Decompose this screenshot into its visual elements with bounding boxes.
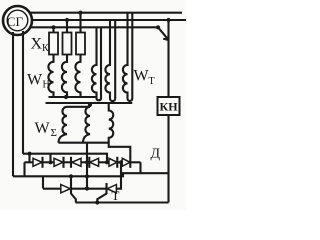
svg-text:X: X [31,36,43,53]
svg-text:Д: Д [151,147,161,162]
svg-text:W: W [27,72,43,89]
svg-text:Т: Т [149,76,155,87]
svg-text:W: W [35,120,51,137]
svg-text:Т: Т [112,188,120,203]
svg-text:СГ: СГ [7,14,24,29]
svg-text:К: К [42,43,49,54]
svg-text:Н: Н [43,80,50,91]
svg-text:Σ: Σ [51,127,57,139]
svg-text:КН: КН [160,100,179,114]
svg-text:W: W [134,68,150,85]
